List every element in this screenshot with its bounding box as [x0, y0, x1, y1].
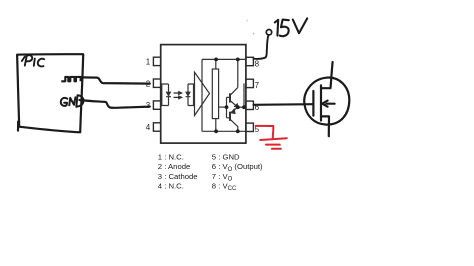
- pin 2 box: [153, 79, 160, 87]
- LED diode D1: [166, 84, 171, 106]
- bottom rail GND to pin 5: [202, 130, 246, 132]
- body circle: [304, 78, 349, 125]
- gate bar: [312, 91, 314, 116]
- 15V label (handwritten): [275, 18, 307, 36]
- svg-text:1: 1: [146, 58, 151, 67]
- svg-text:4 : N.C.: 4 : N.C.: [158, 182, 184, 191]
- svg-text:7: 7: [255, 81, 260, 90]
- svg-text:1 : N.C.: 1 : N.C.: [158, 153, 184, 162]
- source: bottom horizontal and lead down: [322, 116, 329, 136]
- pin description text: [158, 153, 263, 193]
- transistor Q1 (upper NPN): [229, 93, 231, 102]
- line from node to pin 7: [243, 83, 245, 107]
- pin 3 box: [153, 101, 160, 109]
- ground bar 3: [272, 148, 281, 150]
- wire: PIC pulse output to IC pin 2: [83, 77, 150, 83]
- IC internals: [162, 59, 246, 131]
- PIC label (handwritten): [22, 55, 44, 66]
- transistor Q2 (lower PNP): [229, 112, 231, 121]
- pin 7 box: [246, 79, 254, 87]
- svg-text:5 : GND: 5 : GND: [212, 153, 240, 162]
- pin 6 box: [246, 101, 254, 109]
- base bus vertical: [226, 97, 228, 117]
- svg-text:2: 2: [146, 79, 151, 88]
- base drive line: [219, 106, 227, 108]
- junction dots: [214, 58, 246, 134]
- svg-text:2 : Anode: 2 : Anode: [158, 162, 191, 171]
- top rail VCC to pin 8: [202, 58, 246, 60]
- wire: PIC GND to IC pin 3: [80, 100, 150, 108]
- wire from pin 5: [256, 125, 273, 127]
- LED input bracket: [162, 84, 169, 106]
- speck: [253, 33, 255, 35]
- svg-text:8: 8: [255, 59, 260, 68]
- body arrow (points left): [326, 103, 334, 105]
- pin 8 box: [246, 57, 254, 65]
- MOSFET Q (hand-drawn): [304, 62, 349, 136]
- wire: pin 8 to 15V terminal: [254, 35, 269, 59]
- output node line to pin 6: [238, 106, 246, 108]
- light arrows: [174, 92, 179, 94]
- 15V terminal circle: [266, 30, 271, 35]
- IC body (DIP-8 package): [161, 45, 246, 144]
- drain: top horizontal and lead up: [322, 62, 333, 88]
- photodiode D2: [186, 84, 191, 106]
- pulse waveform symbol inside PIC: [61, 77, 80, 81]
- svg-text:4: 4: [146, 123, 151, 132]
- amplifier triangle U1: [195, 72, 210, 115]
- PIC microcontroller box: [17, 54, 83, 132]
- svg-text:3: 3: [146, 101, 151, 110]
- wire: pin 6 to MOSFET gate: [254, 103, 313, 106]
- ground bar 2: [266, 144, 280, 146]
- pin 5 box: [246, 123, 254, 131]
- inner supply box: left vertical: [201, 59, 203, 131]
- red ground symbol at pin 5: [256, 126, 287, 149]
- pin 1 box: [153, 57, 160, 65]
- ground bar 1: [260, 138, 287, 140]
- pin 4 box: [153, 123, 160, 131]
- GND label (handwritten): [61, 95, 84, 107]
- svg-text:3 : Cathode: 3 : Cathode: [158, 172, 198, 181]
- photodiode bracket: [188, 84, 194, 106]
- resistor R1: [212, 69, 218, 119]
- channel bar: [320, 85, 322, 120]
